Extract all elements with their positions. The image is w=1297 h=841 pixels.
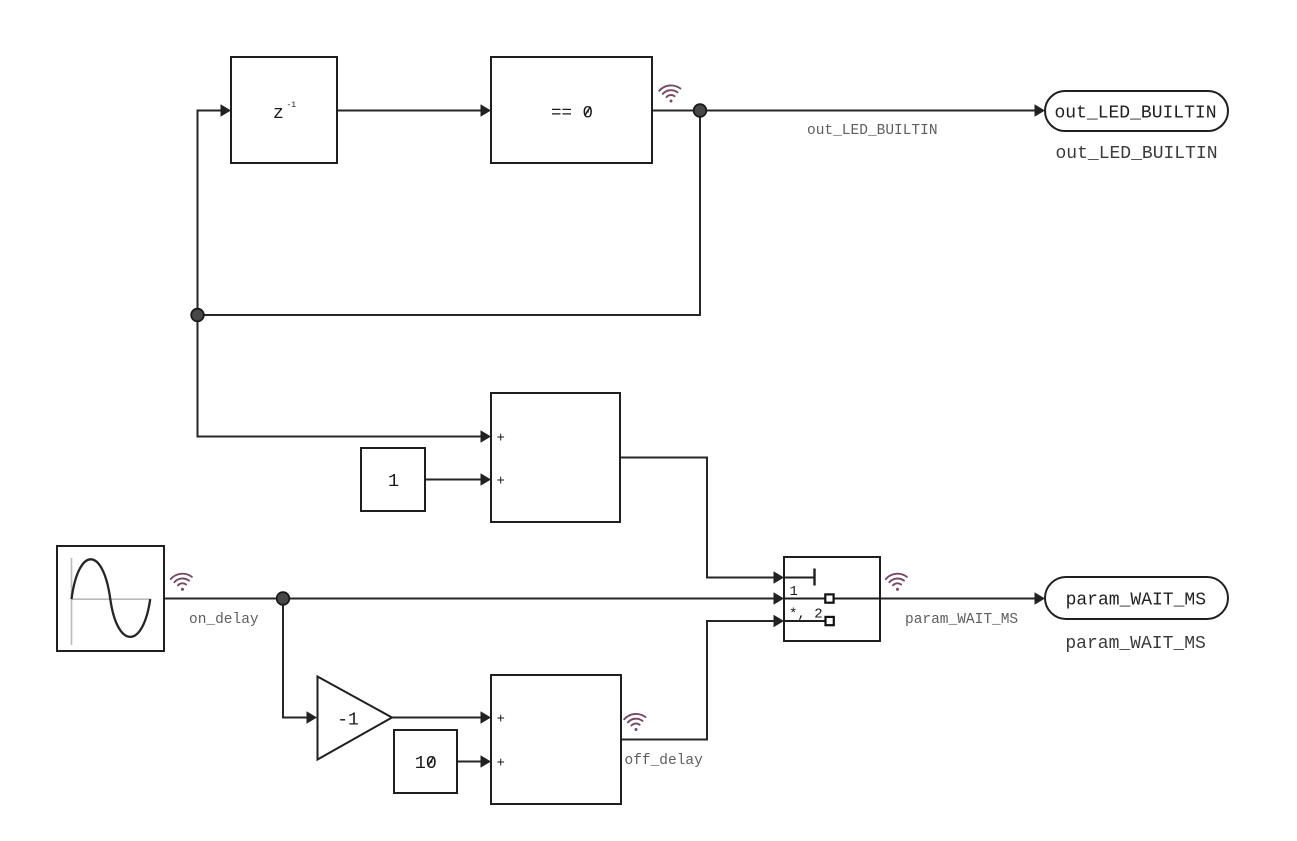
svg-text:out_LED_BUILTIN: out_LED_BUILTIN	[807, 123, 938, 139]
svg-text:1: 1	[790, 584, 798, 600]
svg-text:+: +	[497, 474, 505, 490]
svg-text:-1: -1	[337, 711, 359, 731]
svg-text:+: +	[497, 712, 505, 728]
svg-text:param_WAIT_MS: param_WAIT_MS	[1065, 634, 1205, 654]
svg-text:param_WAIT_MS: param_WAIT_MS	[905, 612, 1018, 628]
svg-text:on_delay: on_delay	[189, 612, 259, 628]
svg-text:10: 10	[415, 753, 437, 774]
svg-text:out_LED_BUILTIN: out_LED_BUILTIN	[1055, 144, 1217, 164]
svg-text:+: +	[497, 431, 505, 447]
svg-text:z: z	[273, 104, 284, 124]
svg-text:param_WAIT_MS: param_WAIT_MS	[1066, 591, 1206, 611]
svg-text:1: 1	[388, 471, 399, 492]
svg-text:-1: -1	[287, 101, 297, 110]
svg-text:off_delay: off_delay	[625, 753, 704, 769]
svg-text:out_LED_BUILTIN: out_LED_BUILTIN	[1054, 103, 1216, 123]
svg-text:*, 2: *, 2	[789, 607, 823, 623]
svg-text:+: +	[497, 756, 505, 772]
